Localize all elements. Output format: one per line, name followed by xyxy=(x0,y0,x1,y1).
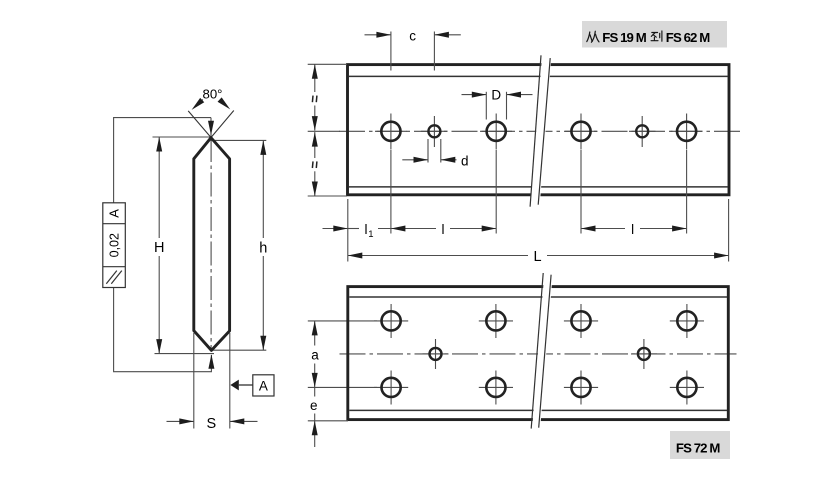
tolerance frame box xyxy=(103,203,126,288)
80deg angle extension line right xyxy=(211,111,234,138)
hole U1 crosshairs xyxy=(390,371,392,405)
hole M1 crosshair xyxy=(435,339,437,369)
hole T1 (large) xyxy=(382,311,401,330)
leader from tolerance frame to bottom apex xyxy=(114,288,212,372)
rail outline xyxy=(348,287,729,420)
H dimension line xyxy=(158,137,160,238)
c extension line right xyxy=(433,32,435,71)
e bottom extension line xyxy=(308,420,348,422)
svg-text:D: D xyxy=(491,88,501,103)
extension rail right edge down xyxy=(728,199,730,262)
rail centerline xyxy=(340,353,737,355)
equal mark extension top xyxy=(308,63,347,65)
hole T1 crosshairs xyxy=(390,304,392,338)
label box FS 72 M xyxy=(670,431,730,459)
hole A4 crosshair xyxy=(686,114,688,150)
svg-text:l: l xyxy=(631,222,634,237)
rail inner edge bottom xyxy=(349,409,727,411)
svg-text:h: h xyxy=(259,241,267,257)
hole A1 (large) xyxy=(381,122,400,141)
c dimension right arrow xyxy=(434,34,460,36)
rail centerline xyxy=(339,130,743,132)
hole U2 crosshairs xyxy=(495,371,497,405)
CJK glyph cong xyxy=(587,31,599,42)
l1 line stub xyxy=(348,228,359,230)
svg-text:FS 19 M: FS 19 M xyxy=(602,30,646,45)
D dimension left arrow xyxy=(462,94,487,96)
l1 dimension outside arrow xyxy=(323,228,348,230)
hole T4 (large) xyxy=(677,311,696,330)
top row extension line xyxy=(308,320,377,322)
small hole axis segments xyxy=(423,353,449,355)
svg-text:FS 72 M: FS 72 M xyxy=(676,441,720,456)
equal dimension upper segment xyxy=(314,64,316,92)
h top extension line xyxy=(211,139,266,141)
hole M1 (small) xyxy=(430,348,442,360)
l right dimension xyxy=(581,228,625,230)
svg-text:L: L xyxy=(534,249,542,265)
l left dimension xyxy=(378,228,436,230)
extension rail left edge down xyxy=(347,199,349,262)
break gap mask bottom rail xyxy=(532,271,553,431)
svg-text:FS 62 M: FS 62 M xyxy=(666,30,710,45)
svg-text:A: A xyxy=(107,209,122,218)
hole B1 crosshair xyxy=(433,116,435,147)
break gap mask top rail xyxy=(530,53,551,208)
d dimension left arrow xyxy=(402,159,428,161)
equal sign upper (rotated) xyxy=(311,96,314,103)
datum A triangle xyxy=(230,380,238,391)
rail inner edge top xyxy=(349,75,728,77)
c dimension left arrow xyxy=(365,34,391,36)
80deg angle extension line left xyxy=(188,111,211,138)
svg-text:A: A xyxy=(259,378,268,393)
S dimension left arrow xyxy=(167,420,194,422)
hole B2 (small) xyxy=(636,125,648,137)
equal sign lower (rotated) xyxy=(311,161,314,168)
svg-text:0,02: 0,02 xyxy=(108,233,122,257)
H bottom extension line xyxy=(155,353,215,355)
bar centerline xyxy=(210,138,212,351)
hole U3 (large) xyxy=(571,378,590,397)
svg-text:1: 1 xyxy=(368,229,373,240)
hole M2 (small) xyxy=(638,348,650,360)
D dimension right arrow xyxy=(507,94,533,96)
e dimension upper stub xyxy=(314,387,316,396)
hole A2 crosshair xyxy=(495,114,497,150)
svg-text:H: H xyxy=(154,240,164,256)
label box FS 19 M to FS 62 M xyxy=(582,21,727,48)
H top extension line xyxy=(153,136,212,138)
CJK glyph dao xyxy=(651,31,662,41)
d extension line left xyxy=(427,139,429,163)
bar outline xyxy=(194,138,230,351)
extension hole A2 down xyxy=(495,150,497,234)
S right extension line xyxy=(229,333,231,429)
equal dimension lower segment xyxy=(314,132,316,158)
hole U1 (large) xyxy=(382,378,401,397)
D extension line right xyxy=(506,92,508,120)
hole T4 crosshairs xyxy=(686,304,688,338)
h bottom extension line xyxy=(211,349,266,351)
equal mark extension bottom xyxy=(308,195,347,197)
break line 1 bottom rail xyxy=(531,273,543,429)
S left extension line xyxy=(193,333,195,429)
svg-text:l: l xyxy=(365,222,368,237)
hole A4 (large) xyxy=(677,122,696,141)
svg-text:80°: 80° xyxy=(203,86,223,101)
rail inner edge top xyxy=(349,296,727,298)
leader vertical to apex with down arrow xyxy=(210,118,212,137)
break line 1 top rail xyxy=(530,55,541,206)
svg-text:l: l xyxy=(442,222,445,237)
e dimension lower stub xyxy=(314,414,316,421)
80deg left leader+arrow xyxy=(194,100,203,108)
e outside arrow below xyxy=(314,421,316,447)
hole A1 crosshair xyxy=(390,114,392,150)
hole U4 crosshairs xyxy=(686,371,688,405)
leader line from tolerance frame to top apex xyxy=(114,118,211,203)
hole A3 (large) xyxy=(571,122,590,141)
extension hole A4 down xyxy=(686,150,688,234)
break line 2 bottom rail xyxy=(539,275,551,428)
d dimension right arrow xyxy=(441,159,457,161)
svg-text:d: d xyxy=(461,153,469,168)
equal mark extension middle xyxy=(308,130,340,132)
h dimension line xyxy=(262,140,264,238)
datum A leader xyxy=(239,384,253,386)
svg-text:c: c xyxy=(409,28,416,43)
rail outline xyxy=(348,65,730,195)
d extension line right xyxy=(440,139,442,163)
extension hole A1 down xyxy=(390,150,392,234)
a dimension line xyxy=(314,321,316,346)
svg-text:e: e xyxy=(310,398,318,413)
80deg right leader+arrow xyxy=(221,100,228,108)
hole B1 (small) xyxy=(428,125,440,137)
c extension line left xyxy=(390,32,392,71)
datum A box xyxy=(253,375,274,396)
S dimension right arrow xyxy=(230,420,258,422)
extension hole A3 down xyxy=(580,150,582,234)
hole U2 (large) xyxy=(486,378,505,397)
D extension line left xyxy=(485,92,487,120)
svg-text:a: a xyxy=(311,348,319,363)
bottom row extension line xyxy=(308,386,377,388)
hole U4 (large) xyxy=(677,378,696,397)
L dimension line xyxy=(348,255,528,257)
svg-text:S: S xyxy=(206,416,216,432)
hole A3 crosshair xyxy=(580,114,582,150)
hole axis segments xyxy=(375,130,407,132)
parallelism symbol xyxy=(106,271,117,284)
hole B2 crosshair xyxy=(641,116,643,147)
hole M2 crosshair xyxy=(643,339,645,369)
hole T2 (large) xyxy=(486,311,505,330)
tolerance frame divider 1 xyxy=(103,223,126,225)
hole T3 crosshairs xyxy=(580,304,582,338)
break line 2 top rail xyxy=(538,58,550,205)
tolerance frame divider 2 xyxy=(103,266,126,268)
hole A2 (large) xyxy=(487,122,506,141)
rail inner edge bottom xyxy=(349,186,728,188)
hole U3 crosshairs xyxy=(580,371,582,405)
hole T3 (large) xyxy=(571,311,590,330)
hole T2 crosshairs xyxy=(495,304,497,338)
